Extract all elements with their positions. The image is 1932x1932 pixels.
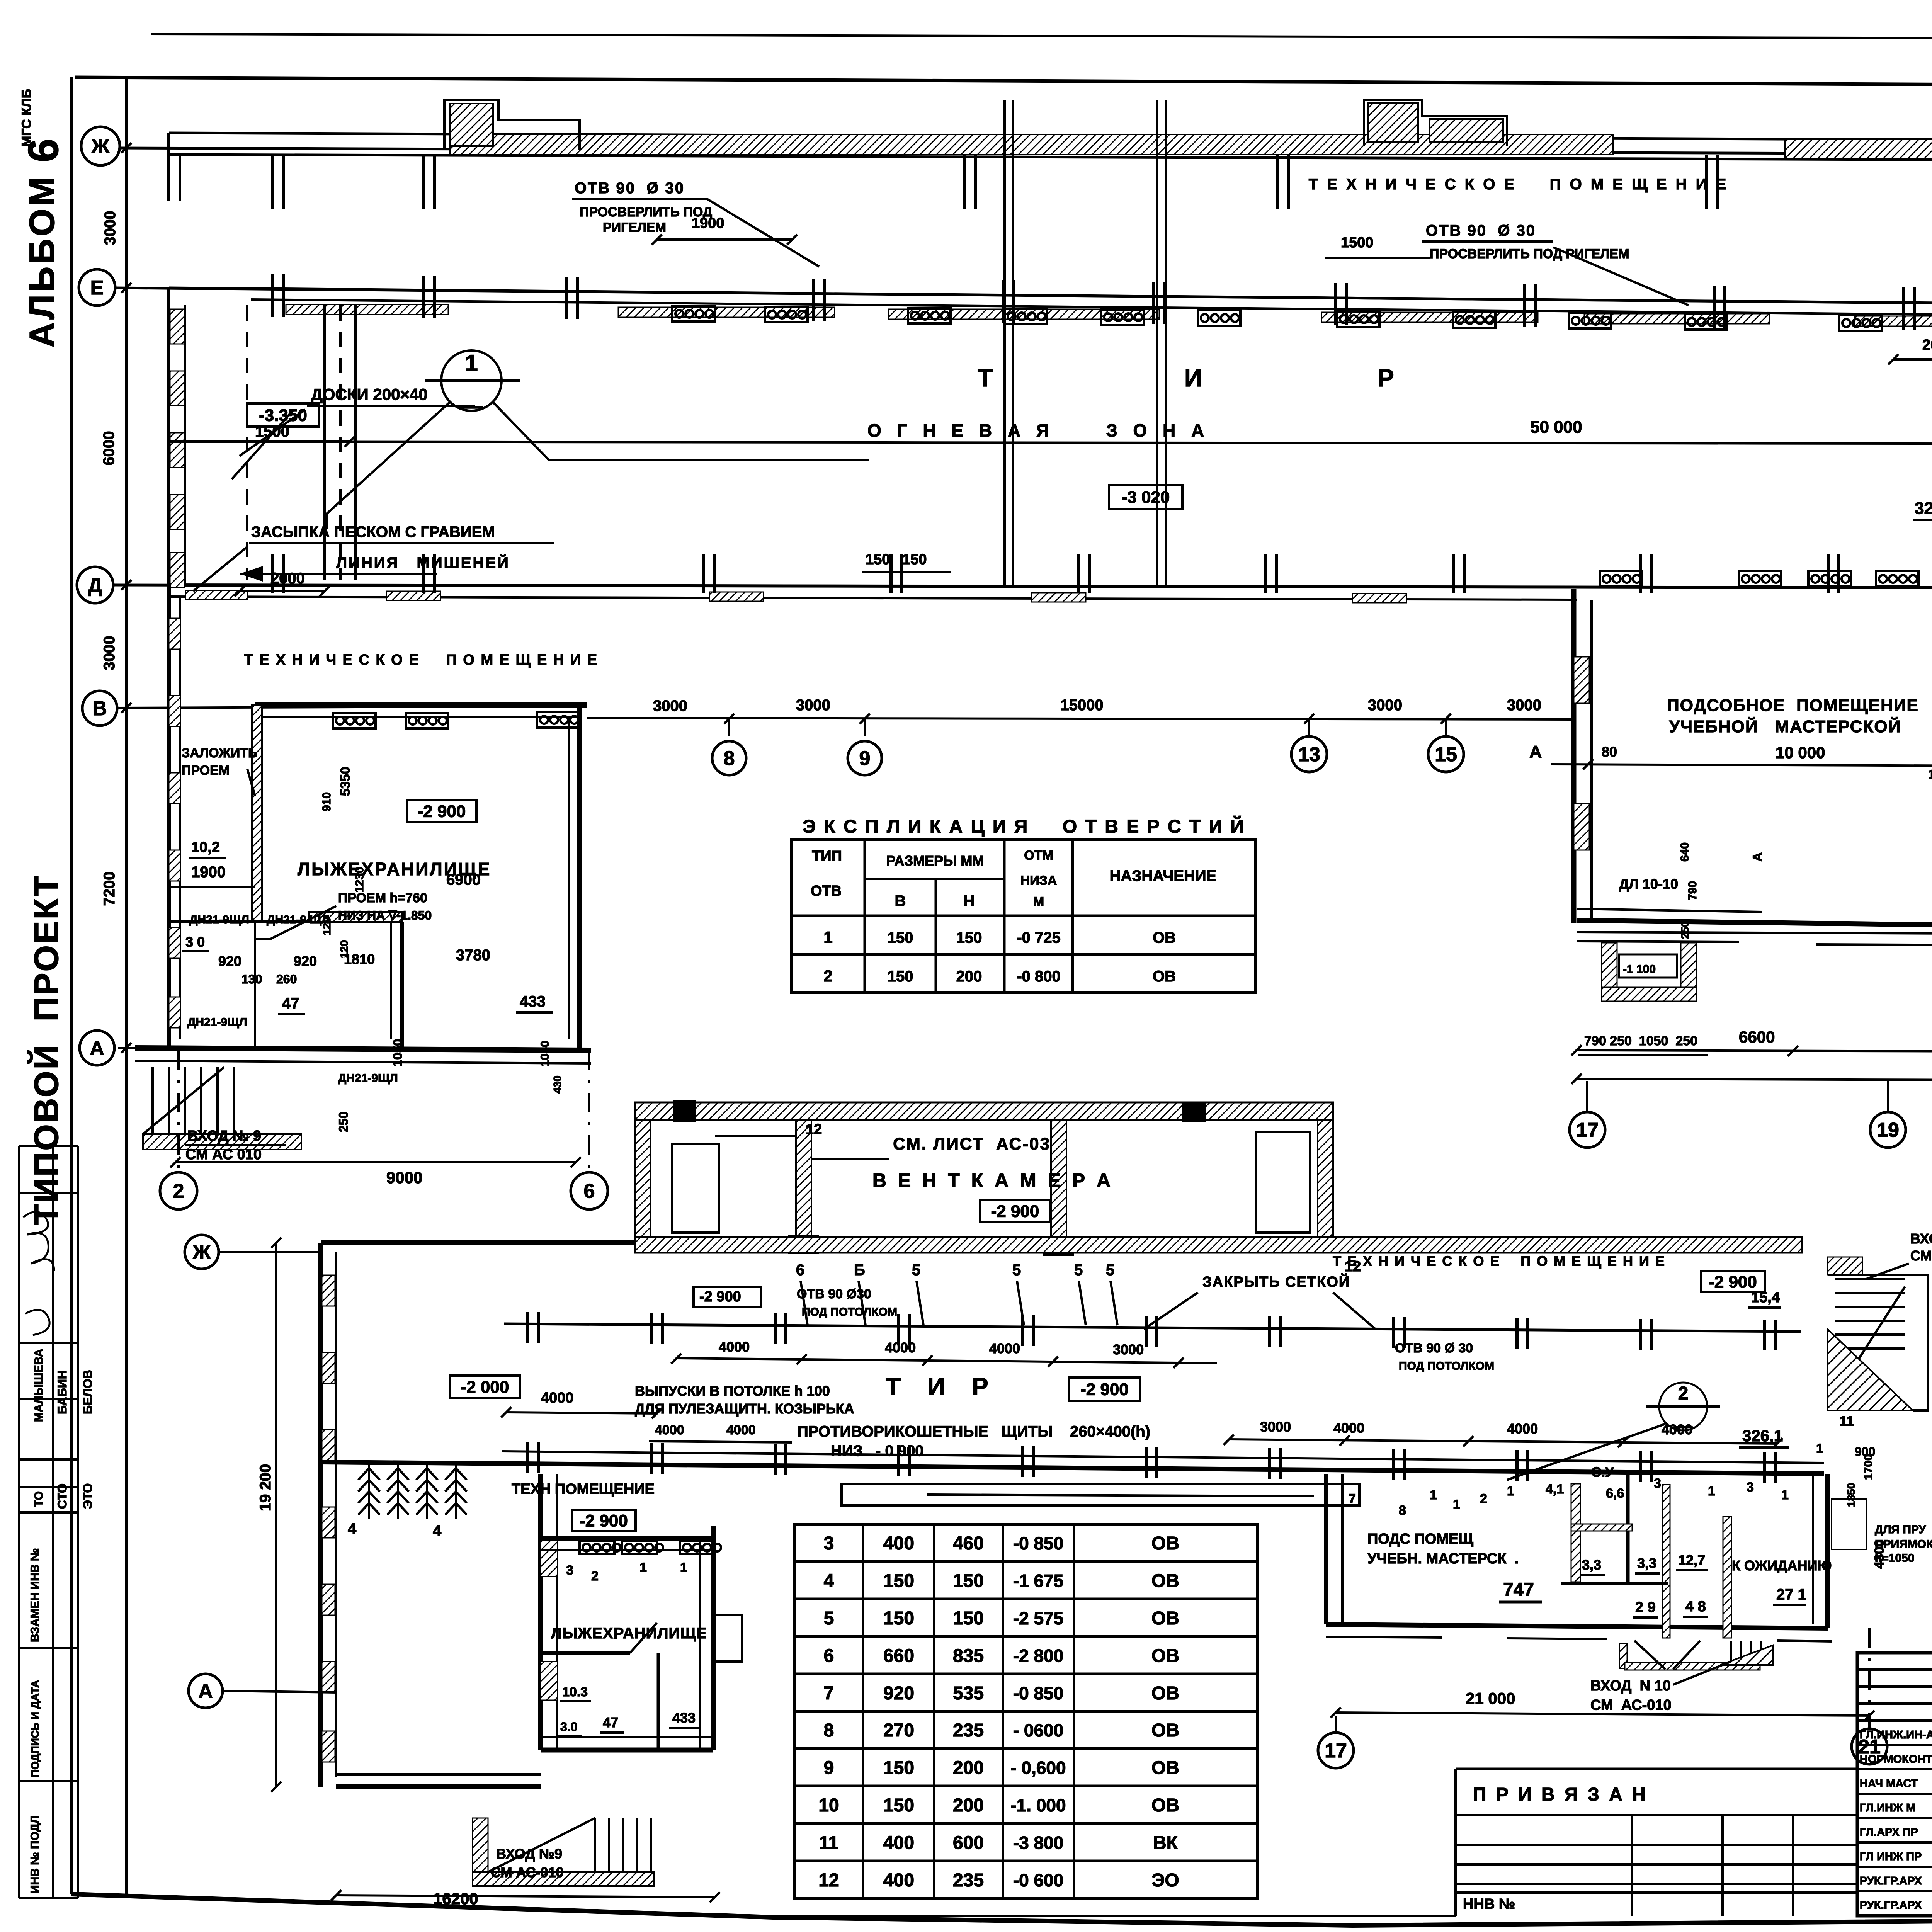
svg-text:1230: 1230 <box>353 867 366 893</box>
svg-text:6000: 6000 <box>100 431 117 466</box>
svg-text:ЛЫЖЕХРАНИЛИЩЕ: ЛЫЖЕХРАНИЛИЩЕ <box>551 1625 707 1642</box>
svg-text:16200: 16200 <box>433 1889 478 1908</box>
svg-text:А: А <box>90 1037 104 1060</box>
hatch segs on left wall <box>169 618 180 649</box>
svg-text:6600: 6600 <box>1739 1028 1775 1046</box>
svg-text:Т: Т <box>978 364 993 392</box>
svg-text:535: 535 <box>953 1683 984 1704</box>
svg-text:А: А <box>1750 852 1765 862</box>
svg-text:Р: Р <box>1378 364 1394 392</box>
svg-text:3000: 3000 <box>653 697 687 714</box>
svg-text:-0 850: -0 850 <box>1013 1533 1063 1553</box>
тир lower wall <box>321 1462 1824 1474</box>
svg-text:12: 12 <box>806 1121 822 1138</box>
svg-text:9000: 9000 <box>386 1168 422 1187</box>
svg-text:150: 150 <box>883 1571 914 1591</box>
grills ski room <box>333 713 376 728</box>
left outer border <box>70 77 73 1894</box>
column on Е x3000 <box>1154 282 1165 324</box>
svg-text:8: 8 <box>1399 1503 1406 1518</box>
svg-text:ННВ №: ННВ № <box>1463 1896 1515 1912</box>
top wall ski room <box>255 702 587 708</box>
svg-text:5: 5 <box>1106 1262 1114 1279</box>
svg-text:Т Е Х Н И Ч Е С К О Е П О М: Т Е Х Н И Ч Е С К О Е П О М Е Щ Е Н И Е <box>1333 1253 1666 1269</box>
svg-text:1850: 1850 <box>1845 1483 1857 1507</box>
svg-text:10,2: 10,2 <box>191 839 220 855</box>
svg-text:250: 250 <box>1679 921 1691 939</box>
svg-text:2: 2 <box>1480 1492 1487 1506</box>
right wall ski room <box>577 705 582 1050</box>
svg-text:ЗАЛОЖИТЬ: ЗАЛОЖИТЬ <box>182 746 258 760</box>
detail callout 2 <box>1659 1383 1707 1430</box>
svg-text:4000: 4000 <box>655 1423 684 1437</box>
-2900 box ski <box>407 800 476 822</box>
svg-text:4000: 4000 <box>726 1423 756 1437</box>
svg-text:12: 12 <box>818 1870 839 1891</box>
svg-text:УЧЕБНОЙ МАСТЕРСКОЙ: УЧЕБНОЙ МАСТЕРСКОЙ <box>1669 716 1901 736</box>
svg-text:БЕЛОВ: БЕЛОВ <box>81 1370 95 1414</box>
подсобное bottom wall (Б) <box>1577 920 1932 932</box>
svg-text:ДН21-9ЩЛ: ДН21-9ЩЛ <box>189 913 249 926</box>
svg-text:ТИП: ТИП <box>812 848 842 864</box>
grid bubble В left <box>82 691 117 726</box>
inner hatched wall x660 <box>252 705 262 922</box>
svg-text:ОТВ 90 Ø 30: ОТВ 90 Ø 30 <box>1395 1341 1473 1355</box>
stamp signatures scribble <box>23 1212 54 1271</box>
svg-text:9: 9 <box>824 1758 834 1778</box>
svg-text:ГЛ ИНЖ ПР: ГЛ ИНЖ ПР <box>1860 1850 1922 1863</box>
svg-text:2000: 2000 <box>270 570 305 587</box>
svg-text:ПОД ПОТОЛКОМ: ПОД ПОТОЛКОМ <box>802 1306 897 1318</box>
svg-text:ДЛЯ ПУЛЕЗАЩИТН. КОЗЫРЬКА: ДЛЯ ПУЛЕЗАЩИТН. КОЗЫРЬКА <box>635 1401 854 1417</box>
hatched wall Ж x1164-4175 <box>450 134 1613 155</box>
svg-text:10 000: 10 000 <box>1776 743 1825 762</box>
svg-text:ТЕХН ПОМЕЩЕНИЕ: ТЕХН ПОМЕЩЕНИЕ <box>512 1481 655 1497</box>
svg-text:1500: 1500 <box>1341 235 1374 251</box>
svg-text:-3.350: -3.350 <box>259 406 307 425</box>
svg-text:ВЫПУСКИ В ПОТОЛКЕ h 100: ВЫПУСКИ В ПОТОЛКЕ h 100 <box>635 1383 830 1399</box>
svg-text:СМ АС 010: СМ АС 010 <box>185 1146 262 1163</box>
svg-text:Р: Р <box>972 1372 988 1400</box>
column on Ж x1110 <box>423 155 434 209</box>
svg-text:ТИПОВОЙ ПРОЕКТ: ТИПОВОЙ ПРОЕКТ <box>27 874 65 1225</box>
подс помещ inner walls <box>1571 1484 1580 1582</box>
svg-text:ЗАКРЫТЬ СЕТКОЙ: ЗАКРЫТЬ СЕТКОЙ <box>1202 1273 1350 1290</box>
svg-text:ДЛ 10-10: ДЛ 10-10 <box>1619 876 1678 892</box>
svg-text:1: 1 <box>465 350 478 376</box>
венткамера walls <box>635 1120 650 1244</box>
column on Д x1110 <box>423 554 434 593</box>
dim row above щиты <box>649 1441 792 1442</box>
svg-text:433: 433 <box>520 993 546 1010</box>
svg-text:430: 430 <box>551 1075 563 1094</box>
svg-text:ТО: ТО <box>32 1491 45 1507</box>
svg-text:150: 150 <box>953 1608 984 1629</box>
svg-text:-2 900: -2 900 <box>1709 1272 1757 1291</box>
hatched stair wall вход9 <box>143 1134 301 1150</box>
svg-text:835: 835 <box>953 1646 984 1666</box>
svg-text:1: 1 <box>1507 1484 1514 1498</box>
svg-text:150: 150 <box>883 1608 914 1629</box>
hatched strips below Д left part <box>185 590 247 600</box>
svg-text:ОВ: ОВ <box>1151 1720 1179 1741</box>
column on Е x1110 <box>423 276 434 318</box>
svg-text:200: 200 <box>953 1758 984 1778</box>
svg-text:ГЛ.ИНЖ М: ГЛ.ИНЖ М <box>1860 1802 1915 1814</box>
column on Д x4745 <box>1828 554 1839 593</box>
grid bubble Д left <box>77 567 113 603</box>
svg-text:ПРОЕМ h=760: ПРОЕМ h=760 <box>338 891 427 905</box>
svg-text:5: 5 <box>1012 1262 1021 1279</box>
svg-text:120: 120 <box>338 940 350 958</box>
svg-text:ПОД ПОТОЛКОМ: ПОД ПОТОЛКОМ <box>1399 1360 1494 1372</box>
svg-text:17: 17 <box>1325 1740 1347 1762</box>
column on Д x3775 <box>1453 554 1464 593</box>
svg-text:БАБИН: БАБИН <box>55 1370 69 1414</box>
svg-text:НИЗА: НИЗА <box>1020 873 1057 888</box>
svg-text:50 000: 50 000 <box>1530 418 1582 437</box>
column on Ж x2510 <box>964 155 975 209</box>
lower plan left outer wall <box>318 1243 323 1787</box>
svg-text:235: 235 <box>953 1870 984 1891</box>
column on Е x3470 <box>1335 283 1346 325</box>
line above привязан to left <box>795 1915 1456 1917</box>
svg-text:11: 11 <box>1839 1413 1854 1429</box>
svg-text:27 1: 27 1 <box>1776 1586 1806 1603</box>
svg-text:ЭО: ЭО <box>1151 1870 1179 1891</box>
svg-text:4: 4 <box>348 1520 357 1537</box>
svg-text:Э К С П Л И К А Ц И Я О Т: Э К С П Л И К А Ц И Я О Т В Е Р С Т И Й <box>803 816 1245 837</box>
svg-text:7200: 7200 <box>101 872 118 906</box>
svg-text:150: 150 <box>953 1571 984 1591</box>
svg-text:4000: 4000 <box>541 1390 574 1406</box>
svg-text:1: 1 <box>1816 1441 1823 1456</box>
svg-text:ПРОСВЕРЛИТЬ ПОД РИГЕЛЕМ: ПРОСВЕРЛИТЬ ПОД РИГЕЛЕМ <box>1430 247 1629 261</box>
svg-text:ЗАСЫПКА ПЕСКОМ С ГРАВИЕМ: ЗАСЫПКА ПЕСКОМ С ГРАВИЕМ <box>251 524 495 541</box>
svg-text:130: 130 <box>241 972 262 986</box>
svg-text:4: 4 <box>824 1571 834 1591</box>
лыжех bottom walls to вход9 <box>336 1784 541 1789</box>
svg-text:150: 150 <box>883 1795 914 1816</box>
column on Д x4260 <box>1641 554 1651 593</box>
left stamp boxes <box>18 1146 20 1898</box>
svg-text:СМ АС-010: СМ АС-010 <box>1590 1697 1672 1713</box>
svg-text:10.3: 10.3 <box>562 1685 588 1699</box>
svg-text:15,4: 15,4 <box>1751 1289 1780 1306</box>
svg-text:-1 100: -1 100 <box>1623 963 1656 976</box>
svg-text:РУК.ГР.АРХ: РУК.ГР.АРХ <box>1860 1875 1922 1887</box>
svg-text:ОВ: ОВ <box>1151 1646 1179 1666</box>
svg-text:Б: Б <box>854 1262 865 1279</box>
svg-text:ВЗАМЕН ИНВ №: ВЗАМЕН ИНВ № <box>29 1548 41 1642</box>
column on Е x2610 <box>1003 280 1014 323</box>
column on Ж x4430 <box>1706 155 1717 209</box>
wall along axis Е <box>169 288 1932 308</box>
svg-text:150: 150 <box>956 929 982 946</box>
svg-text:ОВ: ОВ <box>1151 1758 1179 1778</box>
svg-text:ОВ: ОВ <box>1153 929 1176 946</box>
svg-text:4: 4 <box>433 1522 442 1539</box>
подсобное lower block <box>1324 1474 1328 1624</box>
svg-text:В Е Н Т К А М Е Р А: В Е Н Т К А М Е Р А <box>872 1170 1114 1191</box>
svg-text:-2 800: -2 800 <box>1013 1646 1063 1666</box>
svg-text:3000: 3000 <box>1113 1342 1144 1357</box>
column on Е x4940 <box>1903 287 1914 330</box>
svg-text:-0 800: -0 800 <box>1017 968 1060 985</box>
svg-text:ПРОЕМ: ПРОЕМ <box>182 763 230 778</box>
svg-text:5350: 5350 <box>338 767 353 796</box>
svg-text:1900: 1900 <box>191 864 226 881</box>
svg-text:6: 6 <box>584 1180 595 1202</box>
column on Ж x720 <box>273 155 284 209</box>
sheet frame top line <box>75 77 1932 87</box>
grid line D (axis Д) <box>113 585 1932 589</box>
grid line B (axis Б) right <box>1577 932 1932 936</box>
svg-text:ОТВ 90 Ø 30: ОТВ 90 Ø 30 <box>1426 222 1536 239</box>
grid line V (axis В) left <box>118 706 587 708</box>
svg-text:640: 640 <box>1679 842 1691 862</box>
column on Е x4450 <box>1714 286 1725 328</box>
svg-text:-2 900: -2 900 <box>699 1289 741 1305</box>
svg-text:47: 47 <box>603 1714 618 1730</box>
svg-text:150 150: 150 150 <box>866 551 927 568</box>
svg-text:НИЗ НА ∇-1.850: НИЗ НА ∇-1.850 <box>338 908 432 922</box>
svg-text:1050: 1050 <box>391 1039 405 1066</box>
svg-text:ОТВ 90 Ø 30: ОТВ 90 Ø 30 <box>575 180 685 197</box>
svg-text:ДН21-9ЩЛ: ДН21-9ЩЛ <box>187 1016 247 1029</box>
svg-text:19: 19 <box>1877 1119 1899 1141</box>
svg-text:2: 2 <box>591 1569 599 1583</box>
svg-text:1: 1 <box>1430 1488 1437 1502</box>
svg-text:ПОДС ПОМЕЩ: ПОДС ПОМЕЩ <box>1367 1531 1473 1547</box>
svg-text:ВХОД №9: ВХОД №9 <box>496 1846 562 1862</box>
А-А section dim row <box>1551 764 1932 768</box>
svg-text:ОВ: ОВ <box>1151 1533 1179 1554</box>
svg-text:1: 1 <box>1781 1488 1789 1502</box>
svg-text:Ж: Ж <box>192 1241 211 1264</box>
grid bubble Е left <box>79 269 115 306</box>
svg-text:3: 3 <box>1654 1476 1661 1491</box>
svg-text:М: М <box>1033 895 1044 909</box>
left end wall top wing <box>167 133 170 201</box>
svg-text:120: 120 <box>321 917 333 935</box>
svg-text:-2 900: -2 900 <box>580 1511 628 1530</box>
svg-text:920: 920 <box>294 953 317 969</box>
svg-text:ЭТО: ЭТО <box>81 1483 95 1509</box>
svg-text:СТО: СТО <box>55 1483 69 1509</box>
svg-text:НАЗНАЧЕНИЕ: НАЗНАЧЕНИЕ <box>1110 867 1217 884</box>
svg-text:47: 47 <box>282 995 299 1012</box>
svg-text:С.У: С.У <box>1591 1464 1614 1480</box>
svg-text:3: 3 <box>1747 1480 1754 1495</box>
svg-text:3000: 3000 <box>101 636 118 670</box>
detail callout circle 1 <box>441 350 502 411</box>
svg-text:-2 000: -2 000 <box>461 1378 509 1396</box>
bottom wall А row <box>135 1048 591 1050</box>
svg-text:10: 10 <box>818 1795 839 1816</box>
svg-text:2 9: 2 9 <box>1635 1599 1656 1616</box>
svg-text:660: 660 <box>883 1646 914 1666</box>
svg-text:5: 5 <box>824 1608 834 1629</box>
column on Д x1835 <box>704 554 714 593</box>
svg-text:910: 910 <box>320 792 333 811</box>
column on Д x720 <box>273 554 284 593</box>
svg-text:19 200: 19 200 <box>257 1464 274 1511</box>
Б wall lower line segments with openings <box>1577 941 1739 942</box>
svg-text:СМ. АС-010: СМ. АС-010 <box>1910 1248 1932 1264</box>
svg-text:ДЛЯ ПРУ: ДЛЯ ПРУ <box>1875 1523 1926 1536</box>
bottom hatched wall венткамера/техпомещение <box>635 1237 1802 1253</box>
svg-text:СМ. ЛИСТ АС-03: СМ. ЛИСТ АС-03 <box>893 1134 1051 1153</box>
svg-text:-1. 000: -1. 000 <box>1010 1795 1066 1815</box>
column on Ж x3320 <box>1277 155 1288 209</box>
column on Д x2805 <box>1078 554 1089 593</box>
svg-text:1500: 1500 <box>255 423 289 440</box>
проем leader <box>255 906 336 939</box>
svg-text:2: 2 <box>823 967 832 985</box>
column on Е x2120 <box>814 279 825 321</box>
vent shaft box right <box>1256 1132 1310 1233</box>
wall along axis Ж (double line) <box>169 133 1932 142</box>
svg-text:ОВ: ОВ <box>1151 1571 1179 1591</box>
вход 10 lower stair <box>1619 1643 1627 1668</box>
columns on тир lower wall <box>528 1442 539 1473</box>
svg-text:920: 920 <box>883 1683 914 1704</box>
svg-text:Е: Е <box>90 277 104 299</box>
svg-text:ДН21-9ЩЛ: ДН21-9ЩЛ <box>338 1072 398 1085</box>
svg-text:ЛИНИЯ МИШЕНЕЙ: ЛИНИЯ МИШЕНЕЙ <box>336 554 510 571</box>
column on Д x2320 <box>891 554 902 593</box>
lower partitions ski block <box>169 920 402 923</box>
left wall Д to А <box>167 585 171 1048</box>
svg-text:2: 2 <box>1678 1383 1689 1404</box>
grills below Д (подсобное) <box>1600 571 1642 587</box>
svg-text:Т Е Х Н И Ч Е С К О Е П О: Т Е Х Н И Ч Е С К О Е П О М Е Щ Е Н И Е <box>1309 176 1729 193</box>
svg-text:ОТВ: ОТВ <box>811 883 842 899</box>
svg-text:747: 747 <box>1503 1580 1534 1600</box>
подсобное block left wall <box>1571 589 1577 923</box>
svg-text:4000: 4000 <box>989 1340 1020 1356</box>
expansion joint lines <box>1003 100 1006 585</box>
svg-text:433: 433 <box>672 1710 696 1726</box>
svg-text:ВХОД N 10: ВХОД N 10 <box>1590 1678 1671 1694</box>
svg-text:1: 1 <box>1708 1484 1715 1498</box>
svg-text:400: 400 <box>883 1870 914 1891</box>
svg-text:326,1: 326,1 <box>1742 1427 1783 1445</box>
svg-text:4 8: 4 8 <box>1685 1599 1706 1615</box>
bottom border <box>71 1894 1932 1925</box>
grid line E (axis Е) <box>115 288 1932 309</box>
svg-text:6: 6 <box>796 1262 804 1279</box>
svg-text:ОВ: ОВ <box>1151 1608 1179 1629</box>
lower plan top edge left part <box>321 1240 635 1245</box>
dashed target lines (линия мишеней) <box>246 305 248 580</box>
left inner border <box>125 77 128 1894</box>
svg-text:-2 900: -2 900 <box>418 802 466 821</box>
svg-text:Ж: Ж <box>91 135 110 158</box>
венткамера top hatched wall <box>635 1102 1333 1120</box>
svg-text:1: 1 <box>680 1560 687 1575</box>
column on Е x3960 <box>1525 284 1536 327</box>
svg-text:1050: 1050 <box>539 1041 551 1066</box>
svg-text:Д: Д <box>88 574 102 597</box>
svg-text:ДОСКИ 200×40: ДОСКИ 200×40 <box>311 385 428 403</box>
svg-text:3: 3 <box>824 1533 834 1554</box>
svg-text:3,3: 3,3 <box>1637 1555 1656 1571</box>
black joints венткамера <box>788 1235 819 1254</box>
svg-text:-0 850: -0 850 <box>1013 1683 1063 1703</box>
svg-text:НИЗ - 0 900: НИЗ - 0 900 <box>831 1442 924 1459</box>
svg-text:-2 575: -2 575 <box>1013 1608 1063 1628</box>
svg-text:ГЛ.АРХ ПР: ГЛ.АРХ ПР <box>1860 1826 1918 1838</box>
svg-text:1900: 1900 <box>692 215 724 231</box>
svg-text:460: 460 <box>953 1533 984 1554</box>
svg-text:ОВ: ОВ <box>1153 968 1176 985</box>
porch block above Ж #2 <box>1364 100 1507 146</box>
svg-text:-0 725: -0 725 <box>1017 929 1060 946</box>
вход 9 lower stair <box>473 1818 488 1886</box>
wall along axis Д <box>169 585 1932 589</box>
svg-text:4000: 4000 <box>885 1340 916 1355</box>
svg-text:Н: Н <box>964 893 975 910</box>
svg-text:3000: 3000 <box>102 211 119 245</box>
svg-text:-2 900: -2 900 <box>1080 1380 1129 1399</box>
svg-text:ПРОТИВОРИКОШЕТНЫЕ ЩИТЫ 26: ПРОТИВОРИКОШЕТНЫЕ ЩИТЫ 260×400(h) <box>797 1423 1150 1440</box>
svg-text:150: 150 <box>883 1758 914 1778</box>
dim 9000 bottom ski <box>175 1161 576 1163</box>
svg-text:ОВ: ОВ <box>1151 1683 1179 1704</box>
svg-text:3000: 3000 <box>1507 697 1541 714</box>
svg-text:3: 3 <box>566 1563 573 1578</box>
svg-text:400: 400 <box>883 1833 914 1853</box>
svg-text:17: 17 <box>1576 1119 1599 1141</box>
svg-text:-2 900: -2 900 <box>991 1202 1039 1221</box>
привязан block <box>1456 1768 1857 1770</box>
svg-text:3780: 3780 <box>456 947 490 964</box>
лыжех inner door bump <box>713 1615 742 1662</box>
svg-text:МГС КЛБ: МГС КЛБ <box>19 89 34 147</box>
svg-text:326,1: 326,1 <box>1915 499 1932 518</box>
svg-text:790: 790 <box>1686 881 1699 900</box>
grid line A (axis А) left <box>118 1048 591 1050</box>
svg-text:ГЛ.ИНЖ.ИН-А: ГЛ.ИНЖ.ИН-А <box>1860 1729 1932 1741</box>
svg-text:3000: 3000 <box>1368 697 1402 714</box>
svg-text:9: 9 <box>859 747 871 770</box>
svg-text:П Р И В Я З А Н: П Р И В Я З А Н <box>1473 1784 1648 1805</box>
racks (оружейные стойки) <box>368 1464 370 1519</box>
grid bubble А left <box>80 1031 114 1065</box>
porch block above Ж #1 <box>444 100 580 150</box>
svg-text:В: В <box>92 697 107 720</box>
svg-text:- 0600: - 0600 <box>1013 1720 1063 1740</box>
svg-text:250: 250 <box>337 1112 350 1132</box>
svg-text:400: 400 <box>883 1533 914 1554</box>
svg-text:80: 80 <box>1602 744 1617 760</box>
svg-text:260: 260 <box>276 972 297 986</box>
svg-text:НАЧ МАСТ: НАЧ МАСТ <box>1860 1777 1918 1790</box>
svg-text:И: И <box>1184 364 1202 392</box>
grid bubble Ж left <box>81 127 120 165</box>
svg-text:235: 235 <box>953 1720 984 1741</box>
column on Е x1480 <box>566 277 577 319</box>
svg-text:РУК.ГР.АРХ: РУК.ГР.АРХ <box>1860 1899 1922 1912</box>
противорикошетные щиты band <box>842 1484 1359 1505</box>
svg-text:4,1: 4,1 <box>1546 1482 1564 1497</box>
svg-text:ИНВ № ПОДЛ: ИНВ № ПОДЛ <box>29 1815 41 1893</box>
left wall of огневая зона <box>167 288 170 585</box>
svg-text:В: В <box>895 893 906 910</box>
svg-text:-0 600: -0 600 <box>1013 1870 1063 1890</box>
